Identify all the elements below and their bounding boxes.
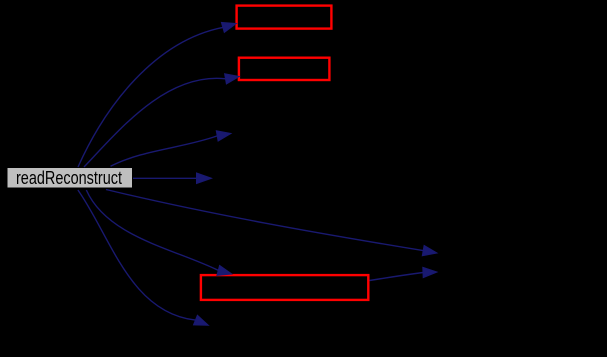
edge box3->hidden node5 (370, 273, 424, 281)
node readReconstruct (grey) (7, 168, 133, 189)
edge readReconstruct->box3 (86, 190, 218, 270)
edge readReconstruct->box2 (84, 78, 226, 167)
node box2 (red link node) (239, 58, 330, 80)
arrowhead edge8 (423, 267, 437, 277)
edge readReconstruct->hidden node4 (133, 177, 197, 179)
arrowhead edge7 (194, 315, 209, 325)
arrowhead edge6 (217, 265, 232, 275)
node box3 (red link node) (201, 275, 368, 300)
edge readReconstruct->box1 (78, 27, 223, 167)
arrowhead edge1 (221, 22, 236, 32)
arrowhead edge5 (422, 245, 437, 255)
node box1 (red link node) (237, 6, 332, 29)
arrowhead edge2 (225, 74, 240, 84)
arrowhead edge3 (216, 131, 231, 141)
edge readReconstruct->hidden node3 (111, 136, 218, 166)
arrowhead edge4 (197, 173, 212, 184)
edge readReconstruct->hidden node5 (106, 190, 423, 251)
svg-text:readReconstruct: readReconstruct (16, 167, 122, 188)
edge readReconstruct->hidden node7 (78, 190, 195, 320)
